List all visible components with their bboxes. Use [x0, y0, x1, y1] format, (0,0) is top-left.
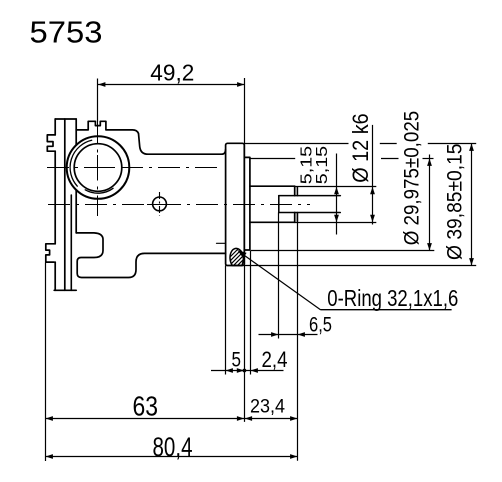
svg-text:Ø 12 k6: Ø 12 k6 — [348, 113, 373, 183]
svg-text:Ø 39,85±0,15: Ø 39,85±0,15 — [443, 143, 467, 260]
svg-text:23,4: 23,4 — [250, 396, 285, 418]
svg-text:5753: 5753 — [30, 15, 103, 49]
svg-text:5,15: 5,15 — [314, 146, 331, 184]
svg-text:80,4: 80,4 — [153, 432, 193, 462]
svg-text:49,2: 49,2 — [150, 59, 194, 85]
svg-text:2,4: 2,4 — [262, 347, 288, 372]
svg-text:5: 5 — [232, 348, 242, 372]
svg-text:Ø 29,975±0,025: Ø 29,975±0,025 — [400, 111, 423, 246]
svg-text:63: 63 — [133, 391, 159, 422]
svg-text:5,15: 5,15 — [299, 146, 316, 184]
svg-text:6,5: 6,5 — [309, 313, 332, 337]
svg-text:0-Ring 32,1x1,6: 0-Ring 32,1x1,6 — [327, 285, 458, 311]
